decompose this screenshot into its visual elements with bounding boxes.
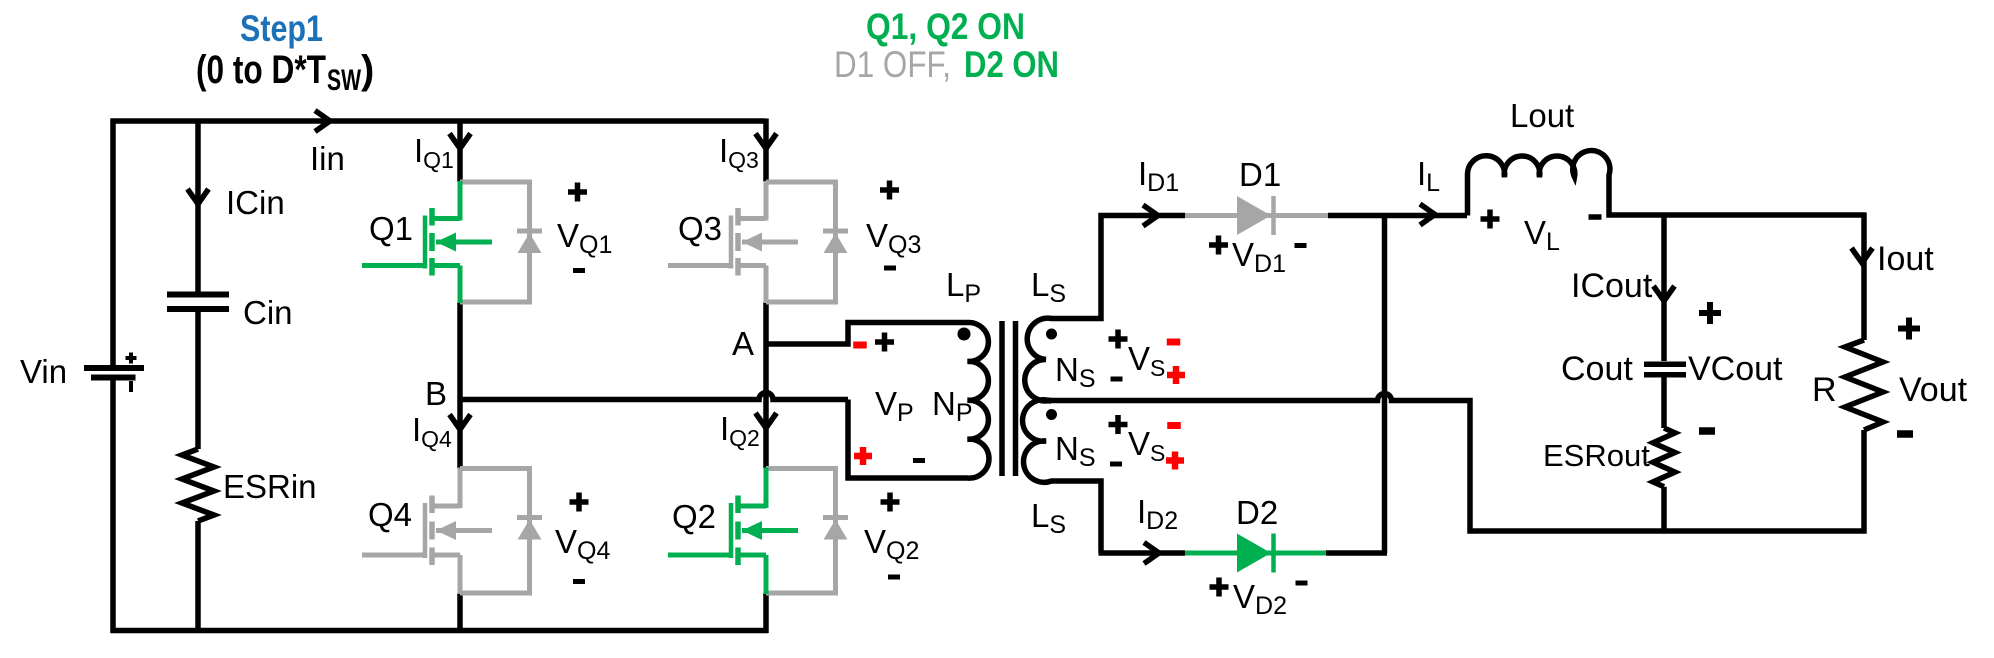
svg-text:Q3: Q3	[678, 210, 722, 247]
svg-text:SW: SW	[327, 64, 361, 97]
svg-text:ICout: ICout	[1571, 267, 1653, 305]
svg-text:VCout: VCout	[1688, 350, 1783, 388]
svg-text:): )	[361, 48, 374, 92]
svg-text:Vin: Vin	[20, 353, 67, 390]
svg-text:Q4: Q4	[368, 496, 412, 533]
svg-text:Q2: Q2	[672, 498, 716, 535]
svg-text:D2 ON: D2 ON	[964, 44, 1059, 85]
svg-text:R: R	[1812, 371, 1837, 409]
svg-text:B: B	[425, 375, 447, 412]
svg-text:ICin: ICin	[226, 184, 285, 221]
svg-text:ESRout: ESRout	[1543, 438, 1650, 473]
svg-text:Q1, Q2 ON: Q1, Q2 ON	[866, 6, 1025, 47]
svg-text:(0 to D*T: (0 to D*T	[196, 48, 326, 92]
svg-text:D1: D1	[1239, 156, 1281, 193]
svg-text:Cout: Cout	[1561, 350, 1633, 388]
svg-text:Cin: Cin	[243, 294, 293, 331]
svg-text:Lout: Lout	[1510, 97, 1574, 134]
svg-text:Step1: Step1	[240, 8, 323, 49]
svg-text:D2: D2	[1236, 494, 1278, 531]
svg-text:Vout: Vout	[1899, 371, 1968, 409]
svg-text:Iout: Iout	[1877, 240, 1934, 278]
svg-text:A: A	[732, 325, 754, 362]
svg-text:Q1: Q1	[369, 210, 413, 247]
svg-text:ESRin: ESRin	[223, 468, 317, 505]
svg-text:Iin: Iin	[310, 140, 345, 177]
svg-text:D1 OFF,: D1 OFF,	[834, 44, 951, 85]
